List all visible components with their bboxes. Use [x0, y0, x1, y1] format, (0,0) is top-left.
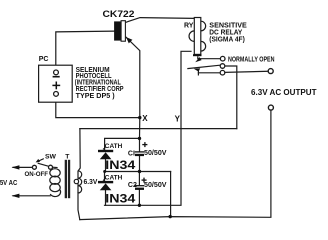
svg-text:6.3V AC OUTPUT: 6.3V AC OUTPUT [251, 88, 317, 97]
svg-text:CI: CI [128, 151, 135, 158]
diode D2 IN34 [98, 174, 136, 205]
svg-text:(SIGMA 4F): (SIGMA 4F) [209, 35, 245, 44]
transformer T primary [50, 169, 61, 197]
svg-text:ON-OFF: ON-OFF [25, 171, 49, 178]
svg-text:RY: RY [184, 23, 194, 30]
wire: D2 bottom lead [105, 190, 107, 205]
transformer T core [65, 154, 71, 199]
node X [138, 116, 141, 119]
wire: 115VAC top lead to switch [13, 166, 32, 168]
relay contact arm B [187, 64, 225, 72]
wire: AC rail from transformer riser to contact riser (node Y rail) [80, 128, 237, 130]
wire: left riser from rail down to transformer secondary [78, 129, 80, 171]
wire: PC bottom to node X [56, 102, 140, 118]
svg-text:X: X [142, 114, 148, 123]
wire: C1 leads [139, 138, 141, 151]
switch SW [25, 153, 57, 178]
svg-text:CATH: CATH [105, 174, 123, 181]
wire: mid horizontal D1/C1 bottoms to V1 [105, 171, 171, 173]
svg-text:50/50V: 50/50V [144, 150, 167, 157]
transformer T secondary 6.3V [74, 171, 97, 193]
wire: relay armature L down through Y to C2 bottom line [105, 51, 192, 205]
wire: V1 vertical to bottom rail [170, 172, 172, 217]
svg-text:IN34: IN34 [105, 194, 136, 206]
photocell PC [39, 56, 124, 102]
relay contact C [220, 70, 225, 75]
svg-text:NORMALLY OPEN: NORMALLY OPEN [228, 55, 275, 64]
collector lead [126, 18, 195, 23]
svg-text:SW: SW [45, 153, 57, 160]
wire: D1 bottom lead [105, 159, 107, 171]
transistor CK722 [103, 9, 195, 118]
wire: output terminal 2 down and bottom rail [80, 110, 271, 219]
svg-text:IN34: IN34 [105, 160, 136, 172]
relay RY coil [184, 18, 247, 57]
115V AC source arrows [0, 165, 19, 198]
svg-text:PC: PC [39, 56, 49, 63]
svg-text:115V AC: 115V AC [0, 178, 17, 187]
wire: D1 top L to C1 top node [105, 138, 140, 149]
wire: contact C stub [197, 71, 199, 75]
output terminal 1 [268, 69, 273, 74]
junction dots [138, 137, 141, 140]
wire: contact B to rail corner riser [225, 66, 237, 129]
wire: contact C to output terminal 1 [225, 71, 268, 72]
svg-text:CK722: CK722 [103, 9, 135, 20]
diode D1 IN34 [98, 143, 136, 172]
wire: C2 leads [138, 172, 140, 186]
wire: switch to primary top [53, 166, 57, 168]
emitter lead [126, 37, 140, 118]
wire: D2 top lead [104, 172, 106, 181]
wire: node X down to C1/D1 node [139, 118, 141, 139]
wire: transformer secondary bottom to rail [78, 193, 80, 220]
svg-text:Y: Y [175, 115, 181, 124]
wire: 115VAC bottom lead to primary bottom [13, 195, 50, 197]
output terminal 2 [268, 105, 273, 110]
svg-text:6.3V: 6.3V [84, 179, 98, 186]
svg-text:CATH: CATH [105, 143, 123, 150]
svg-text:C2: C2 [128, 182, 137, 189]
capacitor C1 [128, 142, 167, 157]
emitter arrow [126, 37, 132, 43]
wire: PC top riser to transistor base [56, 31, 114, 65]
relay contact arm A (normally open) [195, 55, 274, 64]
capacitor C2 [128, 178, 167, 190]
svg-text:TYPE DP5 ): TYPE DP5 ) [76, 91, 116, 100]
svg-text:50/50V: 50/50V [144, 182, 167, 189]
